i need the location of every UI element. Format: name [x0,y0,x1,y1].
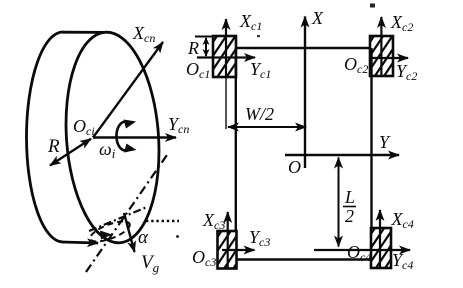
left edge [235,48,237,231]
X_c1 extension line down to W/2 [225,77,227,129]
wheel 1 (front-left) hatched [188,33,265,80]
svg-text:L: L [344,187,355,207]
top tangent line [62,31,105,34]
axis Y_cn arrow [93,136,176,138]
bottom tangent line with arrow [62,242,98,243]
axis X_c3 arrow [227,212,229,268]
velocity V_g arrow [124,213,135,252]
wheel 2 (front-right) hatched [345,33,422,79]
svg-text:R: R [47,136,60,157]
svg-text:W/2: W/2 [245,104,274,124]
back ellipse arc of wheel [26,32,63,242]
axis Y_c2 arrow [371,57,408,59]
contact patch arrow [100,231,112,240]
front ellipse of wheel [59,29,165,246]
central axis Y arrow [285,154,399,156]
dashed contact patch [88,217,132,245]
radius R double arrow [50,139,91,166]
svg-text:2: 2 [345,206,354,226]
spin arrow omega [116,122,130,151]
axis X_c4 arrow [379,210,381,268]
R dimension double arrow [205,38,207,56]
svg-text:X: X [311,8,324,28]
right edge [370,48,372,228]
L/2 dimension arrow [338,158,340,247]
scan speck [370,4,375,8]
axis Y_c3 arrow [222,249,255,251]
central axis X arrow [304,17,306,169]
axis Y_c4 arrow with left extension [314,249,410,251]
dash-dot contact line [89,207,147,231]
dotted horizontal reference line [146,220,179,223]
top edge [236,47,370,49]
dash-dot wheel plane line [86,155,167,272]
stray dot [176,235,179,238]
axis X_c2 arrow [380,17,382,76]
scan speck small [257,35,260,37]
svg-text:α: α [138,227,149,248]
bottom edge [236,258,371,260]
axis X_c1 arrow [225,19,227,77]
W/2 dimension arrow [228,126,306,128]
wheel 4 (rear-right) hatched [346,225,423,271]
wheel 3 (rear-left) hatched [195,228,261,272]
vehicle body rectangle [236,48,372,260]
svg-text:R: R [187,38,199,58]
svg-text:O: O [288,157,301,177]
wheel1 top extension line [195,36,214,38]
axis X_cn arrow [93,42,163,138]
axis Y_c1 arrow [197,56,255,58]
